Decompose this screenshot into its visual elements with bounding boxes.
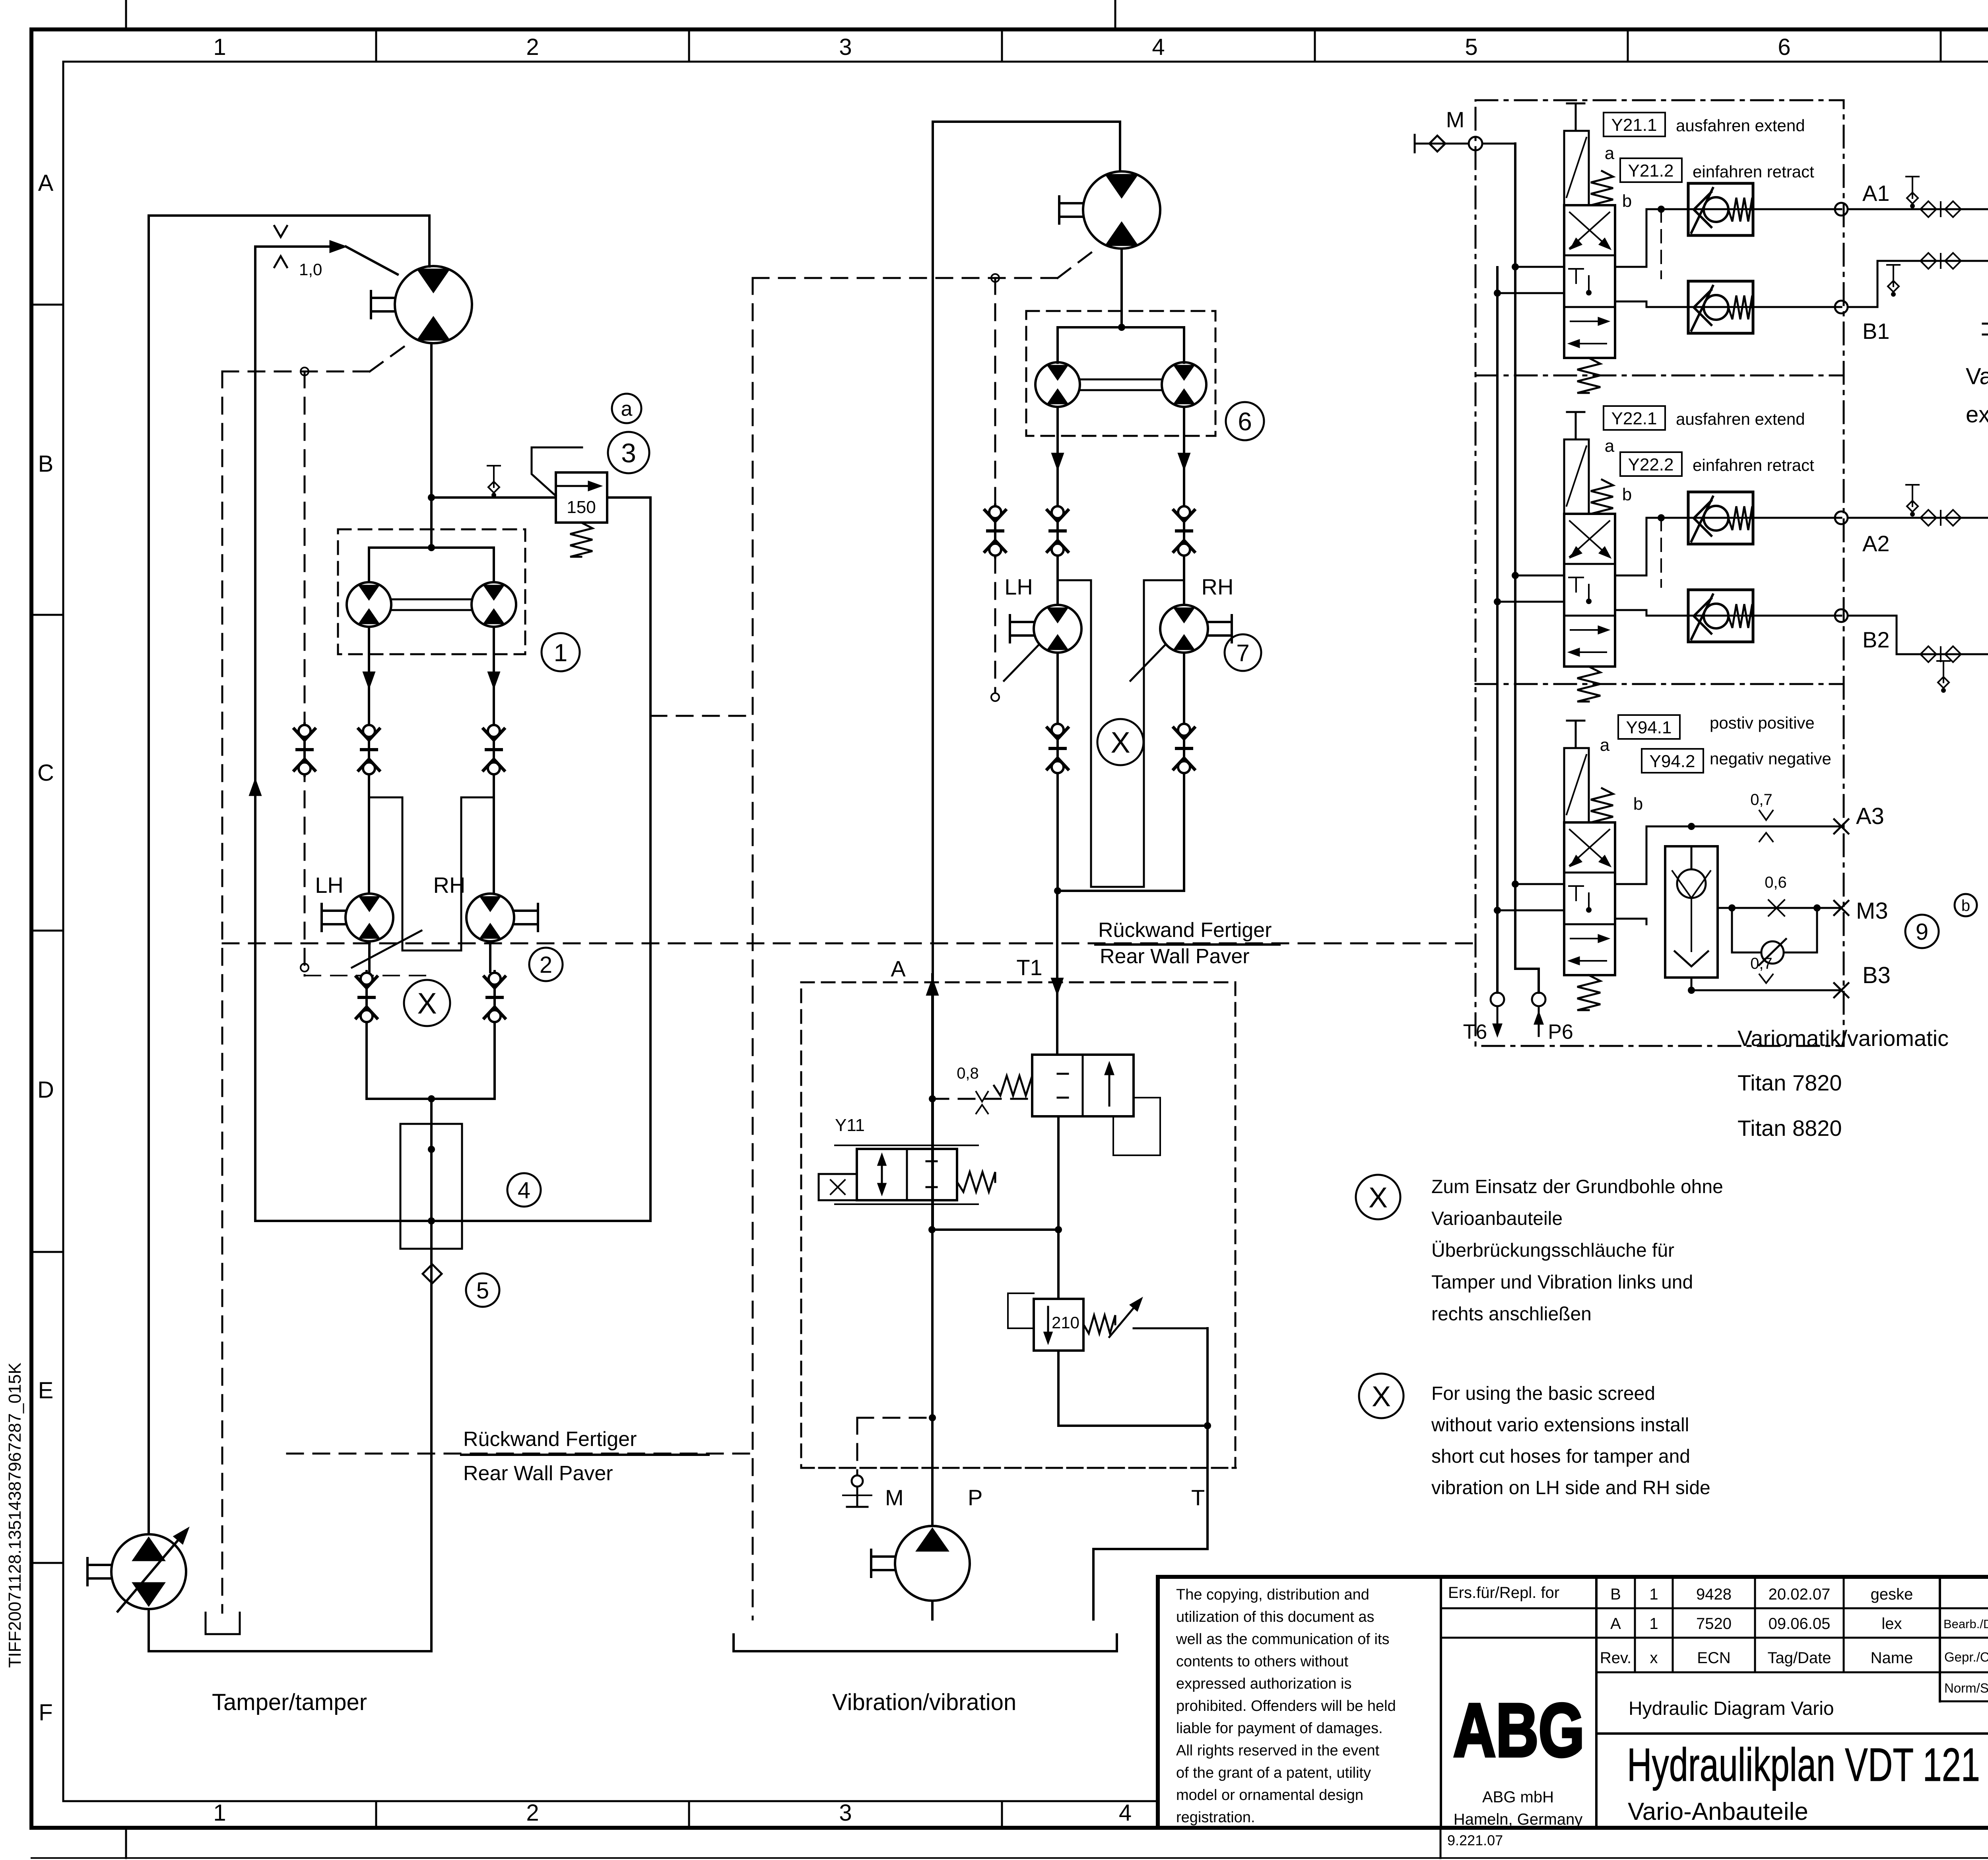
svg-text:ABG: ABG: [1453, 1688, 1584, 1773]
svg-text:M3: M3: [1856, 898, 1888, 924]
svg-text:A1: A1: [1862, 181, 1890, 206]
svg-text:ECN: ECN: [1697, 1649, 1730, 1667]
svg-text:Y22.2: Y22.2: [1628, 455, 1674, 474]
svg-text:0,6: 0,6: [1765, 874, 1787, 891]
svg-text:20.02.07: 20.02.07: [1769, 1586, 1831, 1603]
svg-text:6: 6: [1778, 34, 1790, 60]
svg-text:1: 1: [1649, 1615, 1658, 1633]
svg-text:3: 3: [839, 1800, 852, 1826]
svg-text:LH: LH: [315, 873, 344, 898]
svg-text:Hameln, Germany: Hameln, Germany: [1454, 1811, 1583, 1828]
svg-text:Titan 7820: Titan 7820: [1738, 1070, 1842, 1095]
svg-text:lex: lex: [1881, 1615, 1902, 1633]
svg-text:Variomatik/variomatic: Variomatik/variomatic: [1738, 1026, 1949, 1051]
svg-text:4: 4: [518, 1178, 530, 1203]
svg-text:A3: A3: [1856, 803, 1884, 829]
svg-text:TIFF20071128.13514387967287_01: TIFF20071128.13514387967287_015K: [5, 1362, 25, 1668]
svg-text:Y94.1: Y94.1: [1626, 718, 1672, 737]
svg-text:utilization of this document a: utilization of this document as: [1176, 1609, 1375, 1625]
svg-text:P: P: [968, 1485, 982, 1510]
svg-text:registration.: registration.: [1176, 1809, 1255, 1826]
svg-text:D: D: [37, 1077, 54, 1103]
svg-text:liable for payment of damages.: liable for payment of damages.: [1176, 1720, 1383, 1737]
svg-text:7: 7: [1236, 640, 1249, 667]
svg-text:Rear Wall Paver: Rear Wall Paver: [463, 1462, 613, 1485]
svg-text:well as the communication of i: well as the communication of its: [1176, 1631, 1389, 1648]
svg-text:Hydraulic Diagram Vario: Hydraulic Diagram Vario: [1629, 1698, 1834, 1719]
svg-text:A: A: [891, 956, 906, 981]
svg-text:X: X: [417, 987, 437, 1020]
svg-text:Y22.1: Y22.1: [1611, 409, 1657, 428]
svg-text:a: a: [1605, 436, 1615, 456]
svg-text:without vario extensions insta: without vario extensions install: [1431, 1415, 1689, 1436]
svg-text:1: 1: [213, 34, 226, 60]
svg-text:3: 3: [839, 34, 852, 60]
svg-text:einfahren retract: einfahren retract: [1693, 162, 1814, 181]
svg-text:contents to others without: contents to others without: [1176, 1653, 1348, 1670]
svg-text:Y11: Y11: [835, 1116, 865, 1135]
svg-text:T1: T1: [1016, 955, 1042, 980]
svg-text:0,7: 0,7: [1750, 791, 1773, 809]
svg-text:6: 6: [1238, 407, 1252, 436]
svg-text:P6: P6: [1548, 1020, 1573, 1044]
svg-text:5: 5: [476, 1278, 489, 1304]
svg-text:M: M: [1446, 107, 1465, 132]
svg-text:Zum Einsatz der Grundbohle ohn: Zum Einsatz der Grundbohle ohne: [1431, 1176, 1723, 1197]
svg-text:2: 2: [540, 952, 552, 978]
svg-text:b: b: [1633, 794, 1643, 814]
svg-text:Rear Wall Paver: Rear Wall Paver: [1100, 945, 1250, 968]
svg-text:X: X: [1110, 726, 1130, 759]
svg-text:Vario-Anbauteile: Vario-Anbauteile: [1628, 1798, 1808, 1825]
svg-text:5: 5: [1465, 34, 1477, 60]
svg-text:Tamper und Vibration links und: Tamper und Vibration links und: [1431, 1272, 1693, 1293]
svg-text:RH: RH: [1202, 574, 1234, 599]
svg-text:2: 2: [526, 34, 539, 60]
svg-text:Name: Name: [1871, 1649, 1913, 1667]
svg-text:Bearb./Drawn: Bearb./Drawn: [1943, 1617, 1988, 1631]
svg-text:ABG mbH: ABG mbH: [1482, 1788, 1554, 1806]
svg-text:Tag/Date: Tag/Date: [1767, 1649, 1831, 1667]
svg-text:Y21.2: Y21.2: [1628, 161, 1674, 181]
svg-text:model or ornamental design: model or ornamental design: [1176, 1787, 1363, 1804]
svg-text:B1: B1: [1862, 319, 1890, 344]
svg-text:1: 1: [213, 1800, 226, 1826]
svg-text:Titan 8820: Titan 8820: [1738, 1116, 1842, 1141]
svg-text:b: b: [1622, 191, 1632, 211]
svg-text:Y21.1: Y21.1: [1611, 115, 1657, 135]
svg-text:2: 2: [526, 1800, 539, 1826]
svg-text:Rückwand Fertiger: Rückwand Fertiger: [463, 1428, 637, 1451]
svg-text:of the grant of a patent, util: of the grant of a patent, utility: [1176, 1765, 1371, 1781]
svg-text:RH: RH: [433, 873, 466, 898]
svg-text:ausfahren extend: ausfahren extend: [1676, 116, 1805, 135]
svg-text:C: C: [37, 760, 54, 786]
svg-text:Varioteil LH: Varioteil LH: [1966, 363, 1988, 389]
svg-text:E: E: [38, 1378, 54, 1403]
svg-text:Tamper/tamper: Tamper/tamper: [212, 1689, 367, 1715]
svg-text:expressed authorization is: expressed authorization is: [1176, 1675, 1351, 1692]
svg-text:Überbrückungsschläuche für: Überbrückungsschläuche für: [1431, 1240, 1674, 1261]
svg-text:The copying, distribution and: The copying, distribution and: [1176, 1586, 1369, 1603]
svg-text:F: F: [39, 1700, 52, 1726]
svg-text:T: T: [1191, 1485, 1205, 1510]
svg-text:B: B: [38, 451, 54, 477]
svg-text:1: 1: [1649, 1586, 1658, 1603]
svg-text:Ers.für/Repl. for: Ers.für/Repl. for: [1448, 1584, 1559, 1602]
svg-text:0,7: 0,7: [1750, 955, 1773, 972]
svg-text:B2: B2: [1862, 627, 1890, 652]
svg-text:Y94.2: Y94.2: [1650, 752, 1695, 771]
svg-text:rechts anschließen: rechts anschließen: [1431, 1304, 1592, 1325]
svg-text:X: X: [1369, 1182, 1388, 1214]
svg-text:x: x: [1650, 1649, 1658, 1667]
svg-text:Varioanbauteile: Varioanbauteile: [1431, 1208, 1563, 1229]
svg-text:For using the basic screed: For using the basic screed: [1431, 1383, 1655, 1404]
svg-text:extension LH: extension LH: [1966, 402, 1988, 428]
svg-text:7520: 7520: [1696, 1615, 1732, 1633]
svg-text:a: a: [621, 398, 633, 421]
svg-text:a: a: [1605, 144, 1615, 163]
svg-text:B3: B3: [1862, 962, 1891, 988]
svg-text:150: 150: [567, 498, 596, 517]
svg-text:Gepr./Chkd.: Gepr./Chkd.: [1944, 1650, 1988, 1664]
svg-text:All rights reserved in the eve: All rights reserved in the event: [1176, 1742, 1380, 1759]
svg-text:b: b: [1622, 485, 1632, 504]
svg-text:Norm/Stds.: Norm/Stds.: [1944, 1681, 1988, 1695]
svg-text:short cut hoses for tamper and: short cut hoses for tamper and: [1431, 1446, 1690, 1467]
svg-text:A2: A2: [1862, 531, 1890, 556]
svg-text:negativ negative: negativ negative: [1710, 749, 1831, 768]
svg-text:vibration on LH side and RH si: vibration on LH side and RH side: [1431, 1477, 1710, 1498]
svg-text:3: 3: [621, 438, 636, 468]
svg-text:b: b: [1961, 897, 1970, 914]
svg-text:M: M: [885, 1485, 904, 1510]
svg-text:Vibration/vibration: Vibration/vibration: [832, 1689, 1016, 1715]
svg-text:9428: 9428: [1696, 1586, 1732, 1603]
svg-text:4: 4: [1152, 34, 1165, 60]
svg-text:X: X: [1372, 1381, 1391, 1413]
svg-text:9: 9: [1916, 919, 1928, 945]
svg-text:210: 210: [1052, 1313, 1079, 1332]
svg-text:A: A: [1610, 1615, 1621, 1633]
svg-text:postiv positive: postiv positive: [1710, 713, 1815, 732]
svg-text:0,8: 0,8: [957, 1065, 979, 1082]
svg-text:Rev.: Rev.: [1600, 1649, 1631, 1667]
svg-text:geske: geske: [1871, 1586, 1913, 1603]
svg-text:a: a: [1600, 735, 1610, 755]
svg-text:T6: T6: [1463, 1020, 1487, 1044]
svg-text:09.06.05: 09.06.05: [1769, 1615, 1831, 1633]
svg-text:9.221.07: 9.221.07: [1447, 1832, 1503, 1848]
svg-text:Rückwand Fertiger: Rückwand Fertiger: [1098, 919, 1272, 942]
svg-text:Hydraulikplan VDT 121: Hydraulikplan VDT 121: [1627, 1739, 1980, 1791]
svg-text:A: A: [38, 170, 54, 196]
svg-text:LH: LH: [1004, 574, 1033, 599]
svg-text:ausfahren extend: ausfahren extend: [1676, 410, 1805, 428]
svg-text:prohibited. Offenders will be: prohibited. Offenders will be held: [1176, 1698, 1396, 1714]
svg-text:1,0: 1,0: [299, 260, 322, 279]
svg-text:B: B: [1610, 1586, 1621, 1603]
svg-text:4: 4: [1119, 1800, 1132, 1826]
svg-text:einfahren retract: einfahren retract: [1693, 456, 1814, 474]
svg-text:1: 1: [554, 639, 567, 667]
